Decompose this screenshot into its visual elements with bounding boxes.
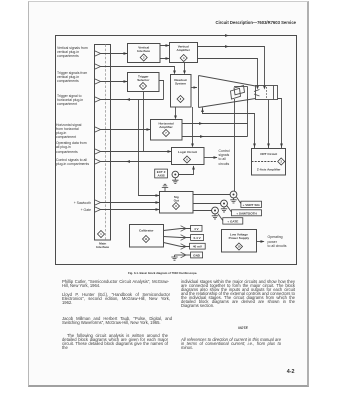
svg-text:+ VERT SIG: + VERT SIG bbox=[243, 203, 261, 207]
svg-text:System: System bbox=[175, 82, 186, 86]
svg-text:Amplifier: Amplifier bbox=[159, 125, 173, 129]
svg-text:CRT Circuit: CRT Circuit bbox=[260, 152, 277, 156]
svg-text:Calibrator: Calibrator bbox=[139, 229, 154, 233]
svg-text:Interface: Interface bbox=[96, 245, 109, 249]
svg-text:AXIS: AXIS bbox=[157, 173, 164, 177]
svg-text:+ SAWTOOTH: + SAWTOOTH bbox=[236, 211, 257, 215]
svg-text:Power Supply: Power Supply bbox=[229, 236, 250, 240]
svg-text:Selector: Selector bbox=[137, 78, 150, 82]
svg-text:Z-Axis Amplifier: Z-Axis Amplifier bbox=[257, 168, 281, 172]
svg-text:Interface: Interface bbox=[137, 49, 150, 53]
svg-text:Logic Circuit: Logic Circuit bbox=[178, 150, 197, 154]
svg-text:+ GATE: + GATE bbox=[227, 219, 238, 223]
svg-text:GND: GND bbox=[193, 253, 201, 257]
svg-text:0.4 V: 0.4 V bbox=[193, 236, 201, 240]
svg-text:Out: Out bbox=[174, 199, 179, 203]
svg-text:40 mV: 40 mV bbox=[193, 245, 203, 249]
svg-text:Amplifier: Amplifier bbox=[176, 48, 190, 52]
